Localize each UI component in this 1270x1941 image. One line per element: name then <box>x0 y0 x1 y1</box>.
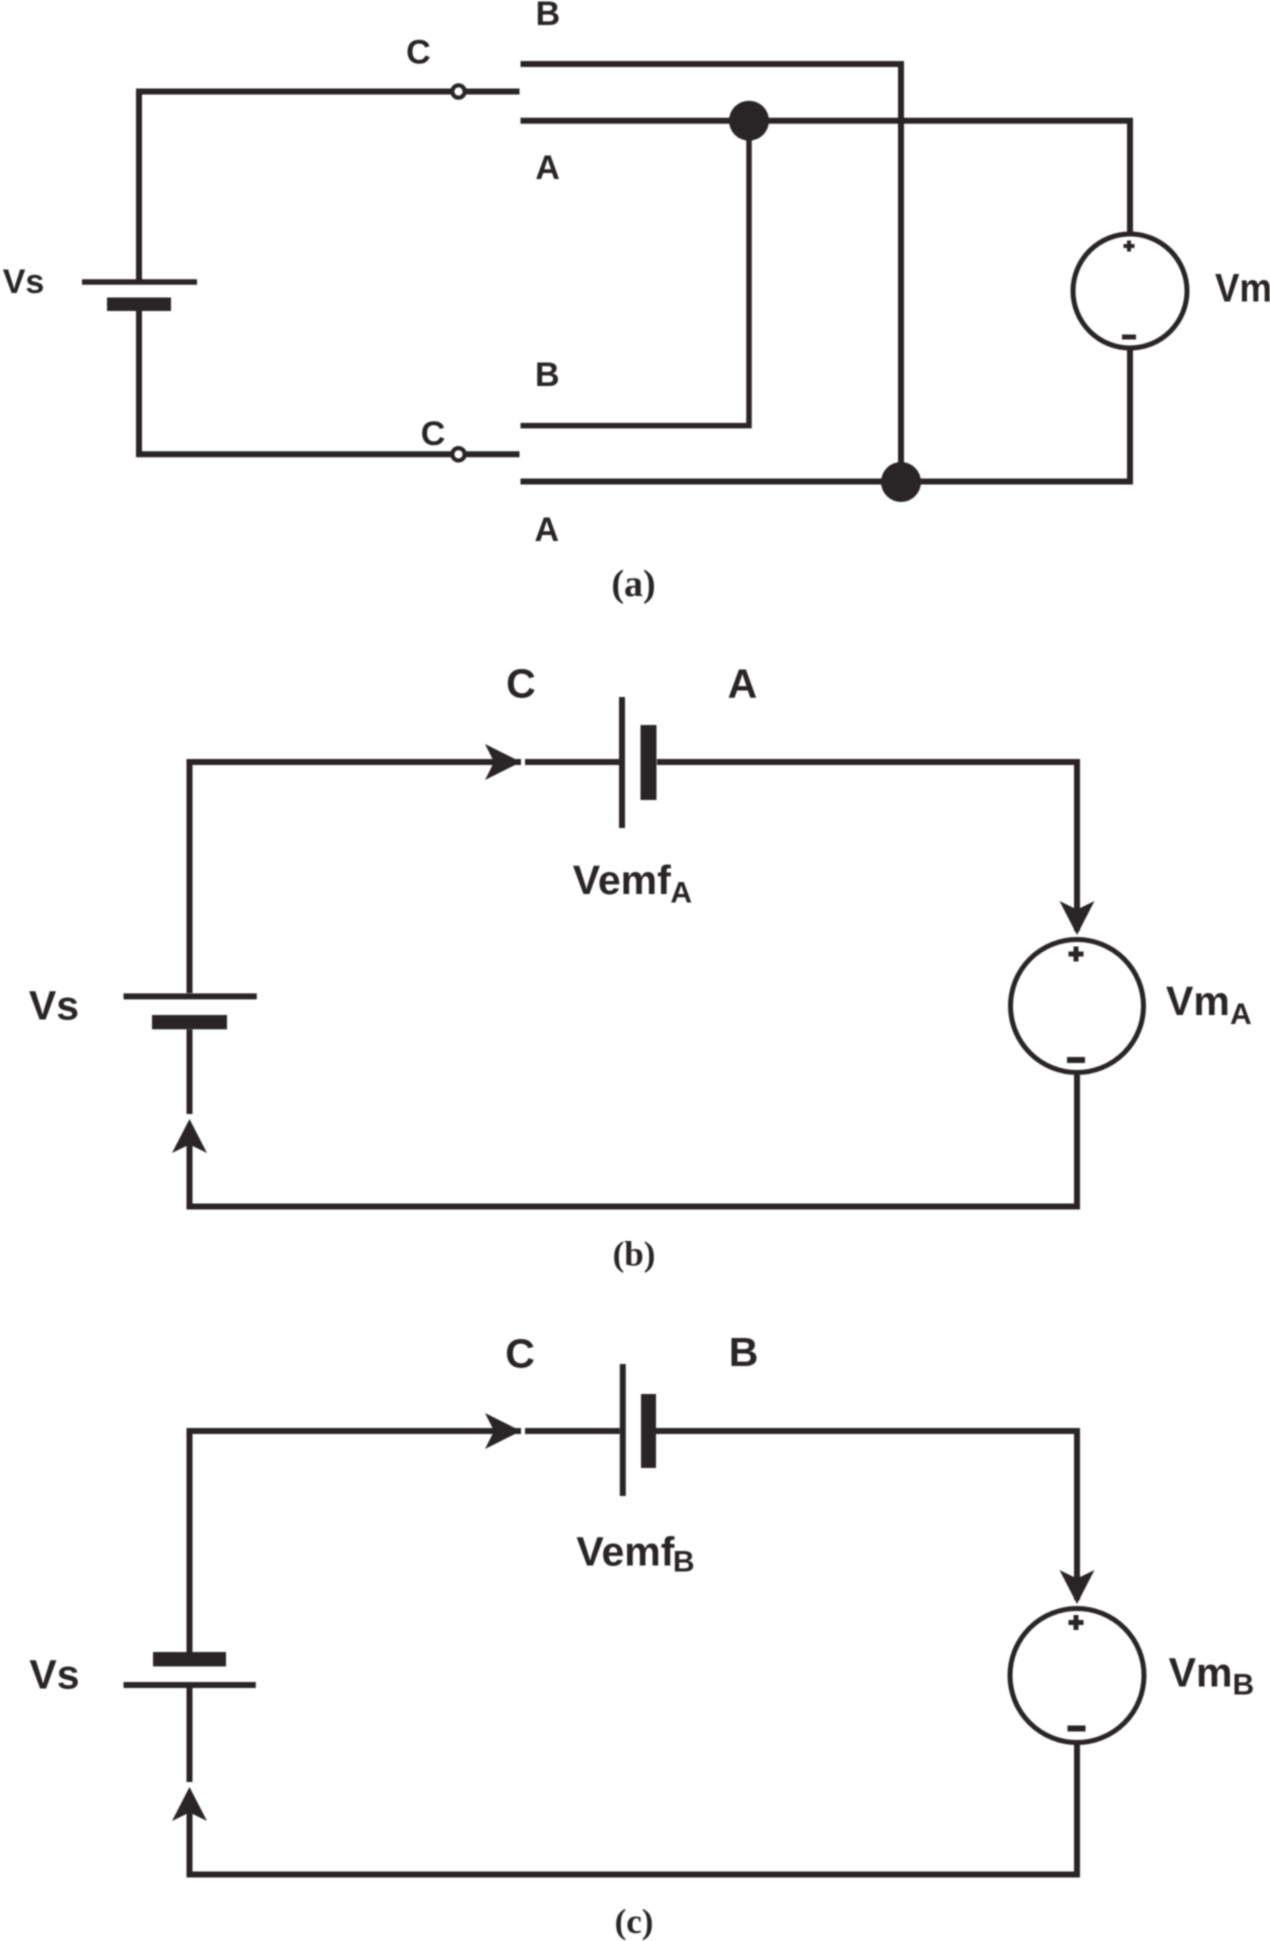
svg-text:A: A <box>728 660 758 706</box>
svg-text:A: A <box>1230 998 1252 1031</box>
node junction bottom (a) <box>881 462 921 502</box>
wire battery Vs top to switch C (a) <box>139 92 451 280</box>
voltmeter VmA (b) <box>1011 940 1144 1073</box>
current arrow right (c) <box>485 1413 521 1449</box>
current arrow right (b) <box>485 744 521 780</box>
svg-text:C: C <box>506 660 536 706</box>
wire top to battery VemfA (b) <box>525 759 619 765</box>
wire stub after bottom contact (a) <box>466 451 520 457</box>
wire junction down and left to B lower (a) <box>521 121 750 426</box>
svg-text:B: B <box>535 356 560 394</box>
svg-text:B: B <box>536 0 561 33</box>
wire top to battery VemfB (c) <box>525 1428 620 1434</box>
wire left vertical below battery (c) <box>187 1688 193 1782</box>
voltmeter Vm (a) <box>1073 234 1187 348</box>
wire B top and down to bottom node (a) <box>521 64 902 482</box>
wire bottom loop (b) <box>190 1075 1078 1207</box>
svg-text:A: A <box>535 511 560 549</box>
svg-text:Vemf: Vemf <box>576 1528 674 1574</box>
svg-text:C: C <box>406 34 431 72</box>
wire bottom loop (c) <box>190 1745 1078 1875</box>
svg-text:Vs: Vs <box>29 1651 79 1697</box>
switch contact C bottom (a) <box>452 448 464 460</box>
current arrow down (b) <box>1060 901 1095 935</box>
svg-text:(c): (c) <box>615 1902 654 1941</box>
svg-text:Vs: Vs <box>3 263 45 301</box>
wire left vertical below battery (b) <box>187 1029 193 1114</box>
svg-text:Vm: Vm <box>1215 267 1270 311</box>
wire top right and right vertical down (b) <box>657 762 1077 931</box>
current arrow down (c) <box>1060 1570 1095 1604</box>
svg-text:B: B <box>673 1546 695 1579</box>
svg-text:Vm: Vm <box>1166 978 1230 1024</box>
svg-text:B: B <box>1233 1668 1255 1701</box>
svg-text:Vemf: Vemf <box>573 857 671 903</box>
wire battery Vs bottom to switch C (a) <box>139 311 451 454</box>
svg-text:C: C <box>421 415 446 453</box>
wire left vertical up and top left (c) <box>190 1431 522 1652</box>
wire stub after top contact (a) <box>466 89 520 95</box>
svg-text:A: A <box>670 877 692 910</box>
node junction on wire A top (a) <box>729 101 769 141</box>
current arrow up (b) <box>172 1119 207 1153</box>
battery VemfB (c) <box>623 1364 656 1496</box>
svg-text:B: B <box>729 1329 759 1375</box>
label VemfB (c) <box>576 1528 694 1578</box>
svg-text:Vs: Vs <box>29 983 79 1029</box>
svg-text:C: C <box>505 1331 535 1377</box>
label VemfA (b) <box>573 857 692 910</box>
switch contact C top (a) <box>452 85 464 97</box>
battery Vs (c) <box>124 1652 256 1685</box>
wire top right and right vertical down (c) <box>656 1431 1077 1600</box>
label VmB (c) <box>1169 1650 1255 1702</box>
current arrow up (c) <box>172 1787 207 1821</box>
battery Vs (b) <box>124 996 257 1029</box>
svg-text:(b): (b) <box>613 1234 656 1273</box>
label VmA (b) <box>1166 978 1252 1031</box>
svg-text:Vm: Vm <box>1169 1650 1233 1696</box>
battery VemfA (b) <box>622 697 657 828</box>
battery Vs (a) <box>82 282 197 311</box>
svg-text:A: A <box>535 149 560 187</box>
wire A lower from voltmeter (a) <box>521 347 1131 482</box>
wire A top and down to voltmeter (a) <box>521 121 1131 235</box>
voltmeter VmB (c) <box>1010 1609 1144 1743</box>
svg-text:(a): (a) <box>611 563 655 605</box>
wire left vertical up and top left (b) <box>190 762 522 993</box>
